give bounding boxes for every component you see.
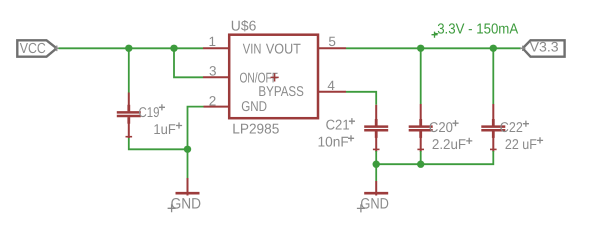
pin 3 stub: [203, 76, 229, 78]
capacitor C21: [364, 105, 388, 152]
junction rail/GND2: [373, 161, 380, 168]
svg-text:4: 4: [327, 78, 335, 93]
junction rail/C20: [417, 161, 424, 168]
svg-text:C20: C20: [429, 120, 453, 136]
svg-text:10nF: 10nF: [318, 135, 350, 151]
svg-text:LP2985: LP2985: [232, 122, 279, 138]
svg-text:C21: C21: [326, 118, 350, 134]
svg-text:2: 2: [209, 93, 217, 108]
label C22 value 22 uF: [505, 137, 543, 153]
supply flag V3.3: [520, 40, 565, 57]
svg-text:1uF: 1uF: [153, 122, 176, 138]
svg-text:GND: GND: [241, 99, 267, 115]
junction VCC/C19: [125, 45, 132, 52]
ground symbol GND1: [168, 178, 202, 213]
svg-text:GND: GND: [171, 196, 202, 213]
svg-text:C22: C22: [500, 120, 523, 136]
capacitor C20: [409, 104, 433, 152]
svg-text:3.3V - 150mA: 3.3V - 150mA: [437, 22, 518, 38]
svg-text:VIN: VIN: [243, 41, 262, 57]
svg-text:V3.3: V3.3: [530, 40, 559, 55]
svg-text:GND: GND: [360, 195, 389, 212]
wire pin 2: [188, 107, 204, 150]
wire to pin 3: [174, 48, 203, 77]
svg-text:3: 3: [209, 64, 217, 79]
wire C19 bottom to GND node: [129, 137, 188, 149]
wire GND1 drop: [187, 149, 189, 178]
wire to C19 top: [128, 48, 130, 92]
junction VCC/pin3: [170, 45, 177, 52]
svg-text:VCC: VCC: [20, 41, 46, 57]
wire pin 4 to C21: [346, 92, 376, 105]
junction V3.3/C20: [417, 45, 424, 52]
pin name ON/OFF: [240, 71, 279, 87]
svg-text:C19: C19: [139, 105, 160, 121]
pin 4 number: [327, 78, 335, 93]
pin 3 number: [209, 64, 217, 79]
pin name GND: [241, 99, 267, 115]
wire GND2 drop: [375, 164, 377, 181]
svg-text:5: 5: [328, 34, 336, 49]
junction V3.3/C22: [490, 45, 497, 52]
pin 1 stub: [203, 47, 229, 49]
pin name VIN: [243, 41, 262, 57]
net label 3.3V - 150mA: [432, 22, 519, 38]
pin 5 number: [328, 34, 336, 49]
svg-text:VOUT: VOUT: [266, 41, 301, 57]
pin name VOUT: [266, 41, 301, 57]
svg-text:U$6: U$6: [231, 19, 257, 35]
part origin cross U$6: [271, 73, 279, 81]
label C21 name: [326, 118, 355, 134]
supply flag VCC: [17, 40, 59, 57]
wire net V3.3 horizontal: [346, 47, 521, 49]
svg-text:1: 1: [209, 34, 217, 49]
junction GND node left: [184, 146, 191, 153]
label C21 value 10nF: [318, 135, 355, 151]
svg-text:22 uF: 22 uF: [505, 137, 537, 153]
label C19 value 1uF: [153, 122, 182, 138]
wire to C20 top: [420, 48, 422, 104]
pin name BYPASS: [258, 84, 304, 100]
wire C21 bottom to GND node right: [375, 151, 377, 164]
pin 4 stub: [318, 91, 346, 93]
pin 2 number: [209, 93, 217, 108]
label C20 value 2.2uF: [432, 137, 472, 153]
capacitor C19: [117, 93, 141, 139]
label C20 name: [429, 120, 459, 136]
svg-text:BYPASS: BYPASS: [258, 84, 304, 100]
ground symbol GND2: [357, 181, 389, 212]
pin 2 stub: [204, 106, 230, 108]
wire to C22 top: [492, 48, 494, 104]
U$6 name label: [231, 19, 257, 35]
IC U$6 LP2985 regulator body: [229, 35, 318, 119]
wire bottom rail: [376, 151, 493, 164]
U$6 value label LP2985: [232, 122, 279, 138]
pin 5 stub: [318, 47, 346, 49]
pin 1 number: [209, 34, 217, 49]
label C19 name: [139, 104, 166, 121]
label C22 name: [500, 120, 529, 136]
svg-text:2.2uF: 2.2uF: [432, 137, 467, 153]
wire net VCC horizontal: [59, 47, 204, 49]
capacitor C22: [481, 104, 505, 152]
wire C20 bottom: [420, 151, 422, 164]
